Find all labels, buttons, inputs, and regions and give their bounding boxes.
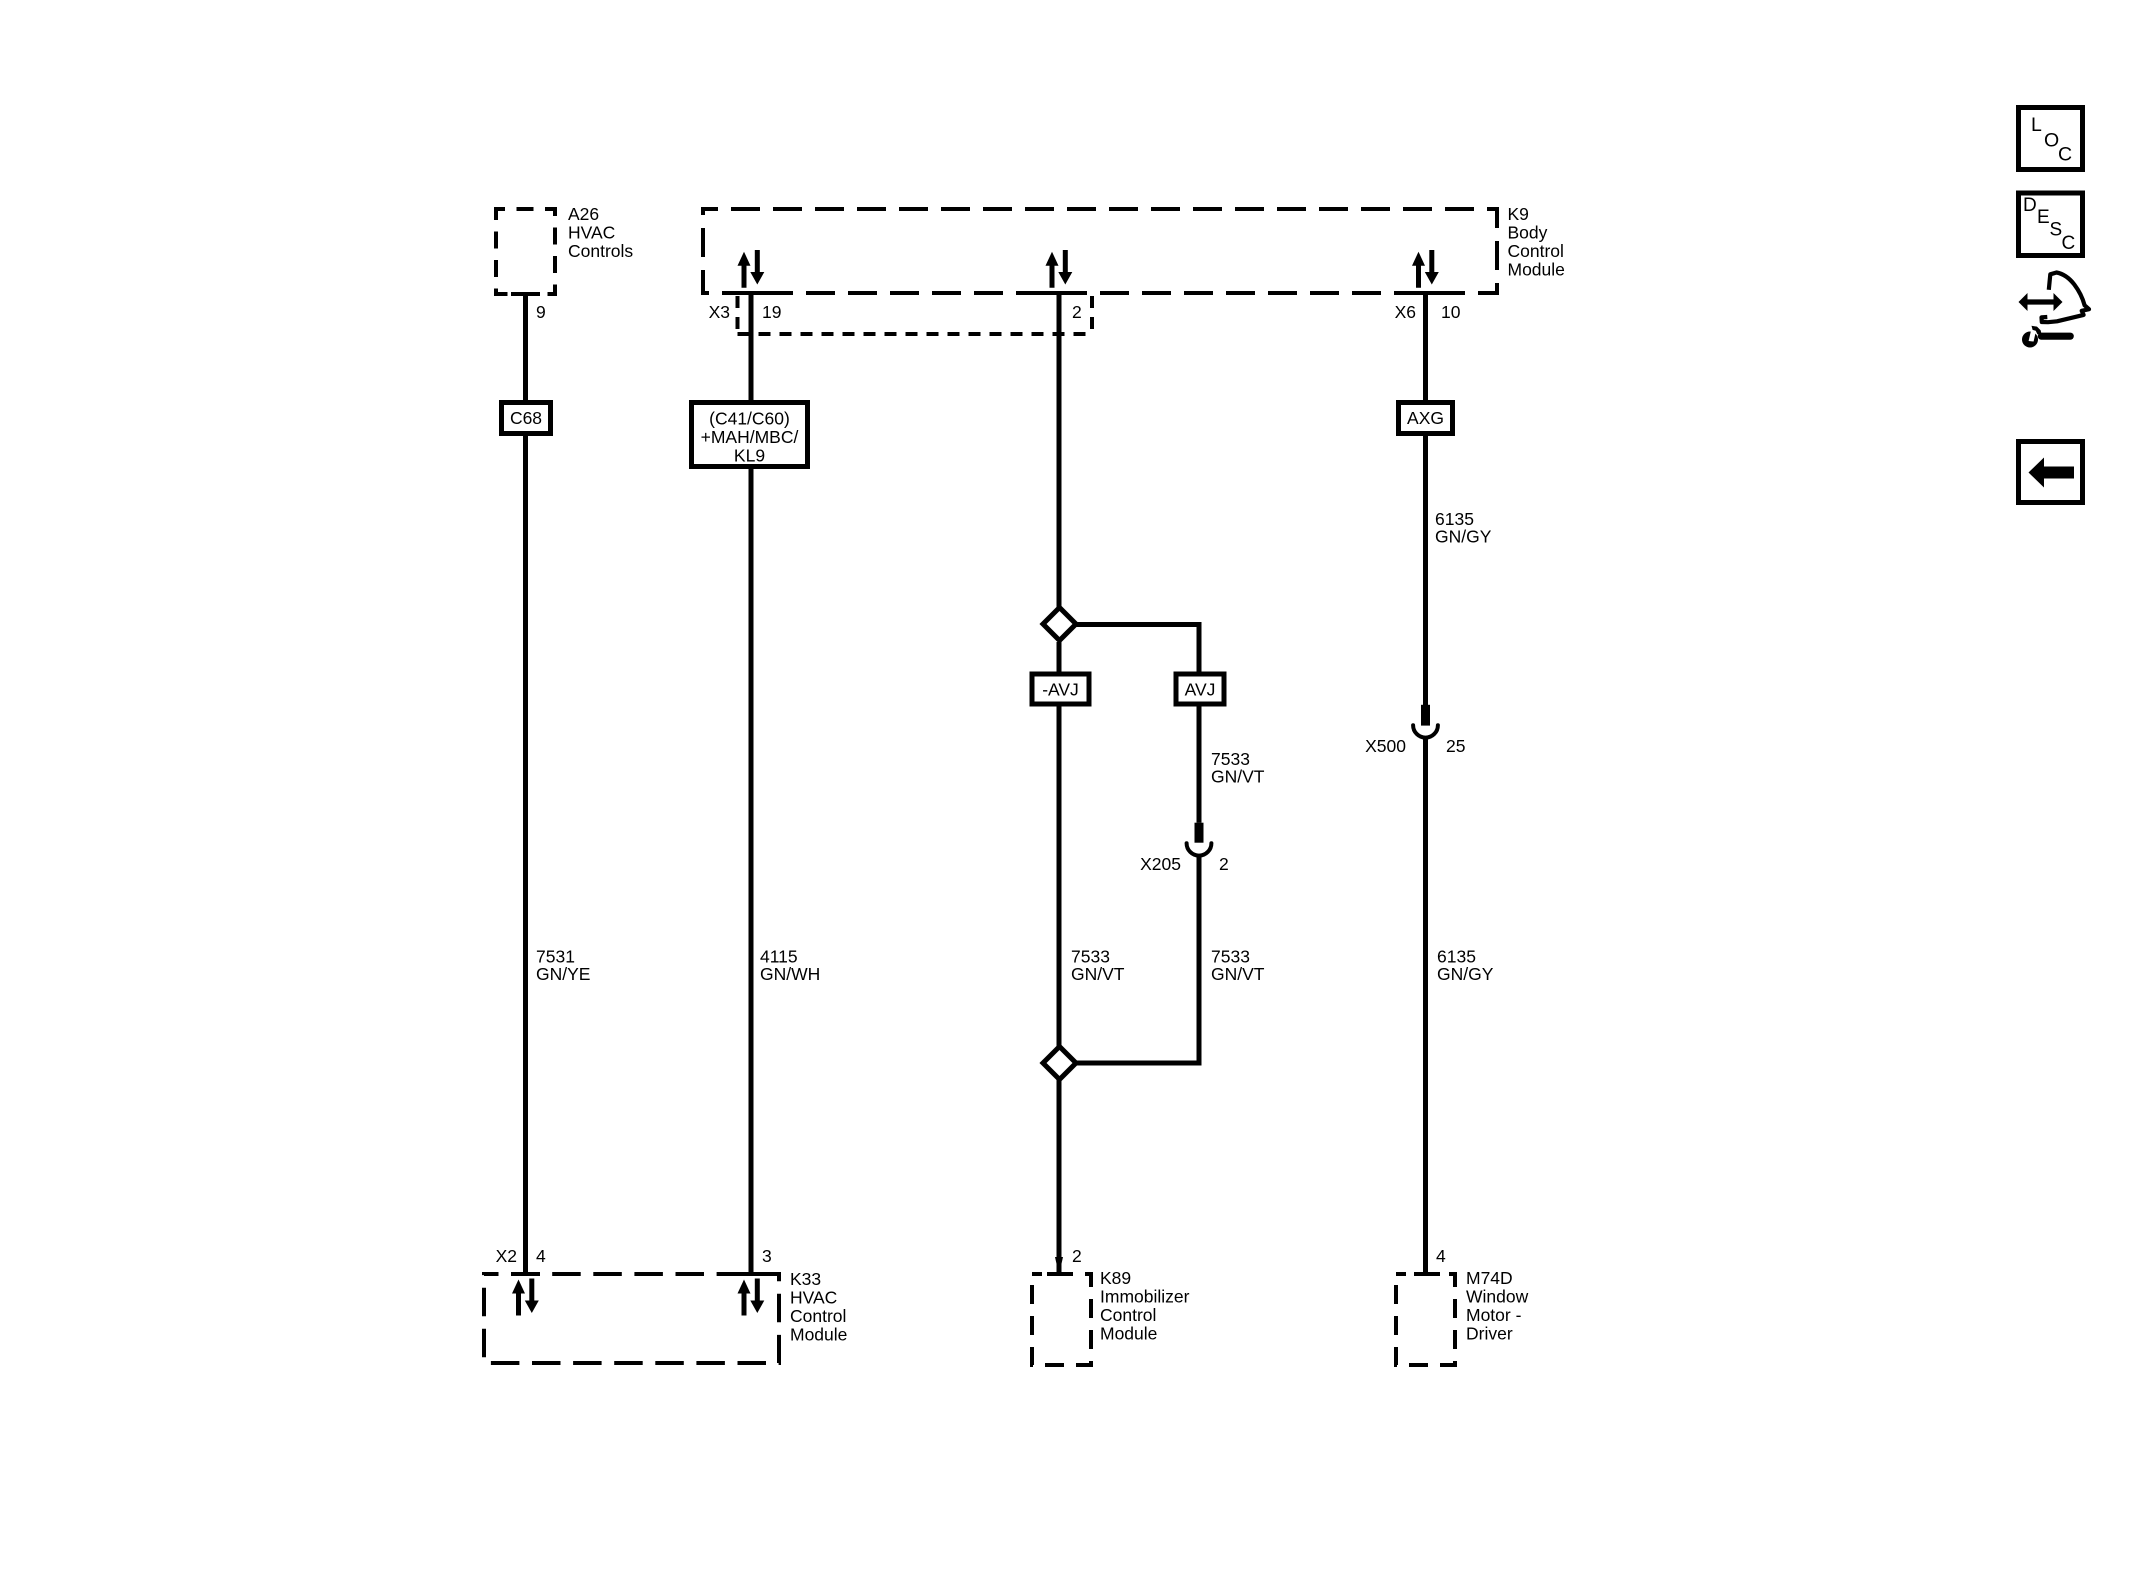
svg-text:D: D xyxy=(2023,195,2037,216)
svg-text:Module: Module xyxy=(790,1325,847,1345)
svg-text:K89: K89 xyxy=(1100,1268,1131,1288)
svg-text:X3: X3 xyxy=(709,302,730,322)
svg-text:Control: Control xyxy=(1508,241,1564,261)
svg-text:3: 3 xyxy=(762,1246,772,1266)
svg-text:AVJ: AVJ xyxy=(1185,680,1216,700)
svg-text:(C41/C60): (C41/C60) xyxy=(709,409,790,429)
svg-text:C68: C68 xyxy=(510,408,542,428)
svg-text:E: E xyxy=(2037,207,2050,228)
svg-text:S: S xyxy=(2050,220,2063,241)
svg-text:KL9: KL9 xyxy=(734,446,765,466)
svg-text:+MAH/MBC/: +MAH/MBC/ xyxy=(701,427,799,447)
svg-text:Window: Window xyxy=(1466,1287,1529,1307)
svg-text:K33: K33 xyxy=(790,1269,821,1289)
svg-text:10: 10 xyxy=(1441,302,1461,322)
svg-text:Motor -: Motor - xyxy=(1466,1305,1522,1325)
svg-text:Driver: Driver xyxy=(1466,1324,1513,1344)
svg-text:GN/VT: GN/VT xyxy=(1211,964,1265,984)
svg-text:2: 2 xyxy=(1072,1246,1082,1266)
svg-text:C: C xyxy=(2062,233,2076,254)
svg-text:GN/YE: GN/YE xyxy=(536,964,590,984)
svg-text:L: L xyxy=(2031,114,2042,136)
svg-text:GN/WH: GN/WH xyxy=(760,964,820,984)
svg-text:M74D: M74D xyxy=(1466,1268,1513,1288)
svg-text:AXG: AXG xyxy=(1407,408,1444,428)
svg-text:GN/GY: GN/GY xyxy=(1435,527,1492,547)
svg-text:Control: Control xyxy=(790,1306,846,1326)
svg-text:25: 25 xyxy=(1446,736,1465,756)
svg-text:Body: Body xyxy=(1508,223,1548,243)
svg-text:K9: K9 xyxy=(1508,204,1529,224)
svg-text:GN/GY: GN/GY xyxy=(1437,964,1494,984)
svg-text:HVAC: HVAC xyxy=(790,1288,837,1308)
svg-text:Immobilizer: Immobilizer xyxy=(1100,1287,1190,1307)
svg-text:X6: X6 xyxy=(1395,302,1416,322)
svg-text:2: 2 xyxy=(1072,302,1082,322)
svg-text:GN/VT: GN/VT xyxy=(1071,964,1125,984)
svg-text:A26: A26 xyxy=(568,204,599,224)
svg-text:Controls: Controls xyxy=(568,241,633,261)
svg-text:9: 9 xyxy=(536,302,546,322)
svg-text:-AVJ: -AVJ xyxy=(1042,680,1079,700)
svg-text:X2: X2 xyxy=(496,1246,517,1266)
svg-text:HVAC: HVAC xyxy=(568,223,615,243)
svg-text:Module: Module xyxy=(1100,1324,1157,1344)
svg-text:2: 2 xyxy=(1219,854,1229,874)
svg-text:19: 19 xyxy=(762,302,781,322)
svg-text:X205: X205 xyxy=(1140,854,1181,874)
svg-text:C: C xyxy=(2058,144,2072,166)
svg-text:4: 4 xyxy=(536,1246,546,1266)
svg-text:Control: Control xyxy=(1100,1305,1156,1325)
svg-text:Module: Module xyxy=(1508,260,1565,280)
svg-text:O: O xyxy=(2044,130,2059,152)
svg-text:GN/VT: GN/VT xyxy=(1211,767,1265,787)
svg-text:X500: X500 xyxy=(1365,736,1406,756)
svg-text:4: 4 xyxy=(1436,1246,1446,1266)
